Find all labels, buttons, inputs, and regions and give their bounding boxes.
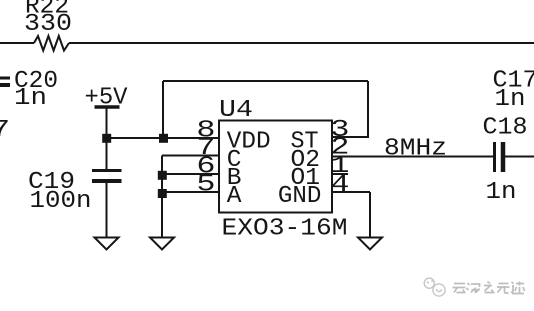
wire chip pin 1 (O1) stub <box>332 173 348 175</box>
wire ST loop top <box>163 80 368 82</box>
wire chip pin 4 (GND) <box>332 191 370 193</box>
char 迹 <box>511 282 525 294</box>
svg-text:1n: 1n <box>14 85 47 112</box>
watermark logo circles <box>424 278 445 296</box>
char 深 <box>467 283 480 293</box>
wire top-left segment <box>0 42 34 44</box>
capacitor C18 right plate <box>501 142 506 172</box>
power +5V bar symbol <box>95 105 120 109</box>
svg-text:7: 7 <box>0 115 10 143</box>
svg-text:5: 5 <box>196 170 215 198</box>
svg-text:A: A <box>227 183 242 210</box>
svg-text:330: 330 <box>24 11 72 38</box>
IC U4 box <box>219 121 332 213</box>
wire +5V vertical down to C19 <box>106 108 108 170</box>
svg-text:1n: 1n <box>486 179 517 206</box>
junction at +5V / VDD row <box>102 134 111 143</box>
wire riser to ST loop <box>162 81 164 138</box>
watermark text 云深之无迹 (drawn strokes) <box>453 282 525 294</box>
wire pin 4 down to ground <box>369 192 371 238</box>
capacitor C18 left plate <box>493 142 496 172</box>
char 云 <box>453 284 466 293</box>
junction ground bus / pin 5 <box>158 189 167 198</box>
wire chip pin 3 (ST) <box>332 136 369 138</box>
capacitor C19 bottom plate <box>92 179 122 183</box>
wire C18 right <box>505 156 534 158</box>
resistor R22 <box>34 36 69 51</box>
ground symbol (C19) <box>95 238 119 250</box>
junction VDD row / ST loop riser <box>159 134 168 143</box>
svg-text:8MHz: 8MHz <box>384 136 447 163</box>
capacitor C19 top plate <box>92 169 122 172</box>
wire ground bus vertical <box>161 156 163 239</box>
wire C19 to ground <box>106 183 108 238</box>
svg-text:EXO3-16M: EXO3-16M <box>222 216 348 243</box>
wire chip pin 5 (A) <box>162 191 219 193</box>
char 无 <box>497 284 510 294</box>
char 之 <box>484 282 494 293</box>
svg-text:1n: 1n <box>495 86 526 113</box>
svg-text:100n: 100n <box>30 188 92 215</box>
wire chip pin 7 (C) <box>162 155 219 157</box>
svg-text:C18: C18 <box>483 115 528 142</box>
junction ground bus / pin 6 <box>158 171 167 180</box>
wire chip pin 6 (B) <box>162 173 219 175</box>
wire chip pin 2 (O2) to C18 <box>332 156 493 158</box>
wire VDD row to chip pin 8 <box>107 137 220 139</box>
wire top-right segment <box>69 42 534 44</box>
capacitor C20 (plates cut off at left edge) <box>0 77 10 80</box>
ground symbol (U4 GND) <box>358 238 382 250</box>
svg-text:GND: GND <box>278 183 322 210</box>
wire ST loop right down <box>367 81 369 137</box>
svg-text:U4: U4 <box>219 97 253 124</box>
ground symbol (bus A/B/C) <box>150 238 174 250</box>
